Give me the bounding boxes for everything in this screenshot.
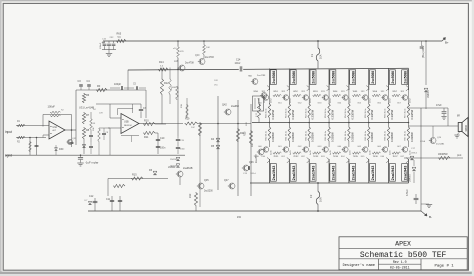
svg-text:0.33/5W: 0.33/5W [311,109,315,119]
svg-text:W51: W51 [273,91,278,93]
svg-text:W54: W54 [333,91,338,93]
svg-text:2sc4793: 2sc4793 [257,75,266,77]
svg-text:W55: W55 [353,91,358,93]
svg-text:R14: R14 [159,61,164,64]
svg-text:R65: R65 [117,33,122,36]
svg-text:7K32: 7K32 [293,156,299,158]
svg-text:SPKR: SPKR [466,125,468,132]
svg-text:2sa1837: 2sa1837 [256,153,258,163]
svg-text:0.33/5W: 0.33/5W [350,109,354,119]
svg-text:7K35: 7K35 [353,156,359,158]
svg-text:10K: 10K [93,127,95,131]
svg-text:input: input [5,130,12,134]
svg-text:R57 36.3x: R57 36.3x [405,108,407,118]
svg-text:LA6: LA6 [174,60,179,63]
svg-text:2sa968: 2sa968 [231,105,240,108]
svg-text:10R: 10R [214,80,218,82]
svg-text:2sa1943: 2sa1943 [292,165,296,180]
svg-text:0.33/5W: 0.33/5W [271,132,275,142]
svg-text:1MKuf: 1MKuf [411,153,417,155]
svg-text:2sc5088: 2sc5088 [403,71,407,84]
svg-text:0.33/5W: 0.33/5W [370,109,374,119]
svg-text:R15: R15 [132,174,137,177]
svg-text:W56: W56 [373,91,378,93]
svg-text:Q45: Q45 [204,179,209,182]
svg-text:1N4007: 1N4007 [428,89,430,98]
svg-text:sgnd: sgnd [5,153,12,157]
svg-text:W50: W50 [254,91,259,93]
svg-text:W53: W53 [313,91,318,93]
svg-text:0.33/5W: 0.33/5W [291,109,295,119]
svg-text:C12: C12 [89,195,94,198]
svg-text:2sc4793: 2sc4793 [205,57,214,59]
svg-text:F1: F1 [310,53,314,57]
svg-text:C10: C10 [160,137,165,140]
svg-text:U3A: U3A [53,126,58,129]
svg-text:2sa1943: 2sa1943 [351,165,355,180]
svg-text:7K34: 7K34 [333,156,339,158]
svg-text:100n: 100n [180,149,186,151]
svg-text:2sa1943: 2sa1943 [371,165,375,180]
svg-text:R52 36.3x: R52 36.3x [305,108,307,118]
svg-text:Q47: Q47 [224,179,229,182]
svg-text:2sc5088: 2sc5088 [272,71,276,84]
svg-text:R53 36.3x: R53 36.3x [325,108,327,118]
svg-text:U3B: U3B [124,121,129,124]
svg-text:2sc5088: 2sc5088 [391,71,395,84]
svg-text:0.33/5W: 0.33/5W [330,132,334,142]
svg-text:Q40: Q40 [195,55,200,57]
svg-text:1MKuf: 1MKuf [250,173,256,175]
svg-text:100pF: 100pF [114,83,122,86]
svg-text:0.33/5W: 0.33/5W [410,132,414,142]
svg-text:C11: C11 [106,198,111,201]
svg-text:180R/5W: 180R/5W [438,154,448,156]
svg-text:Page # 1: Page # 1 [434,264,454,268]
svg-text:0.33/5W: 0.33/5W [291,132,295,142]
svg-text:B+: B+ [445,41,449,45]
svg-text:02-05-2011: 02-05-2011 [390,265,410,269]
svg-text:R60 36.3x: R60 36.3x [266,130,268,140]
svg-text:R55 36.3x: R55 36.3x [365,108,367,118]
svg-text:L20A: L20A [420,140,426,143]
svg-text:2sa964B: 2sa964B [183,167,193,170]
svg-text:47uF: 47uF [436,104,442,107]
svg-text:R63 36.3x: R63 36.3x [325,130,327,140]
svg-text:0.33/5W: 0.33/5W [311,132,315,142]
svg-text:Schematic b500 TEF: Schematic b500 TEF [360,251,447,260]
svg-text:10R: 10R [246,122,248,126]
svg-text:2sa1943: 2sa1943 [332,165,336,180]
svg-text:0.33/5W: 0.33/5W [370,132,374,142]
svg-text:R62 36.3x: R62 36.3x [305,130,307,140]
svg-text:7K31: 7K31 [273,156,279,158]
svg-text:LM541: LM541 [168,166,176,169]
svg-text:R51 36.3x: R51 36.3x [285,108,287,118]
svg-text:7K33: 7K33 [313,156,319,158]
svg-text:Q42: Q42 [222,104,227,107]
svg-text:R54 36.3x: R54 36.3x [345,108,347,118]
svg-text:F2: F2 [309,194,313,198]
svg-text:10A: 10A [319,197,323,202]
svg-text:7K36: 7K36 [373,156,379,158]
svg-text:2sc5088: 2sc5088 [332,71,336,84]
svg-text:R61 36.3x: R61 36.3x [285,130,287,140]
svg-text:2sa1943: 2sa1943 [312,165,316,180]
svg-text:100uf: 100uf [235,63,241,65]
svg-text:0.33/5W: 0.33/5W [330,109,334,119]
svg-text:C14: C14 [236,59,241,62]
svg-text:2sc5200: 2sc5200 [204,191,213,193]
svg-text:R64 36.3x: R64 36.3x [345,130,347,140]
svg-text:APEX: APEX [395,240,411,247]
svg-text:10K: 10K [206,47,210,49]
svg-text:100n: 100n [160,147,166,150]
svg-text:R10: R10 [144,120,149,123]
svg-text:1N4148: 1N4148 [170,159,178,161]
svg-text:R12: R12 [164,82,169,85]
svg-text:10C: 10C [191,127,195,129]
svg-text:W52: W52 [293,91,298,93]
svg-text:2R2: 2R2 [189,193,192,198]
svg-text:Full: Full [252,143,254,147]
svg-text:2sc5088: 2sc5088 [351,71,355,84]
svg-text:#32: #32 [237,216,242,219]
svg-text:Rev 1.0: Rev 1.0 [393,260,407,264]
svg-text:2sc5088: 2sc5088 [292,71,296,84]
svg-text:7K37: 7K37 [392,156,398,158]
svg-text:2sa1943: 2sa1943 [272,165,276,180]
svg-text:1N4007: 1N4007 [410,173,412,182]
svg-text:D30: D30 [59,148,64,151]
svg-text:B-: B- [429,215,432,219]
svg-text:0.33/5W: 0.33/5W [350,132,354,142]
svg-text:NE5534: NE5534 [124,125,132,127]
svg-text:0.33/5W: 0.33/5W [271,109,275,119]
svg-text:2sc4708: 2sc4708 [185,63,194,65]
svg-text:2sc5481: 2sc5481 [436,144,445,146]
svg-text:R65 36.3x: R65 36.3x [365,130,367,140]
svg-text:0.33/5W: 0.33/5W [390,132,394,142]
svg-text:0.33/5W: 0.33/5W [410,109,414,119]
svg-text:R66 36.3x: R66 36.3x [385,130,387,140]
svg-text:10R: 10R [99,113,103,115]
svg-text:Designer's name: Designer's name [343,263,375,268]
svg-text:2sa1943: 2sa1943 [391,165,395,180]
svg-text:10A: 10A [320,54,323,59]
svg-text:R23: R23 [244,131,247,136]
svg-text:8R: 8R [457,116,460,118]
svg-text:2sc5088: 2sc5088 [312,71,316,84]
svg-text:RF: RF [97,85,101,88]
svg-text:R50 36.3x: R50 36.3x [266,108,268,118]
svg-text:2sa1943: 2sa1943 [403,165,407,180]
svg-text:R19: R19 [185,118,190,121]
svg-text:prot: prot [457,154,462,157]
svg-text:470uF: 470uF [406,189,409,196]
svg-text:R56 36.3x: R56 36.3x [385,108,387,118]
svg-text:100uF: 100uF [48,105,56,109]
svg-text:R11: R11 [144,136,149,139]
svg-text:100uF: 100uF [100,42,102,49]
svg-text:-1uF mylar: -1uF mylar [85,161,98,165]
svg-text:R67 36.3x: R67 36.3x [405,130,407,140]
svg-text:2sc5088: 2sc5088 [371,71,375,84]
svg-text:Q46: Q46 [249,161,254,164]
svg-text:W57: W57 [392,91,397,93]
svg-text:0.33/5W: 0.33/5W [390,109,394,119]
